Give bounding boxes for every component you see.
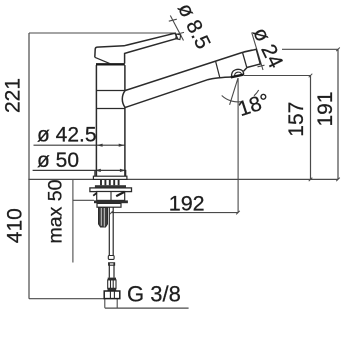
wire: left vertical dimension line (221/410): [28, 33, 30, 299]
spout tip end piece: [243, 49, 261, 67]
supply tube upper end cap: [108, 256, 114, 260]
node: dimension end ticks: [110, 48, 340, 215]
wire: vertical reference from aerator to 192 line: [237, 78, 239, 213]
svg-text:192: 192: [169, 191, 205, 215]
wire: dia 50 leader/collar top line: [33, 169, 127, 171]
handle lever tip stub: [176, 34, 181, 40]
aerator dome outer: [232, 69, 244, 77]
washer dark band: [94, 200, 128, 203]
node: arrowheads dia 50: [95, 169, 126, 172]
wire: dia 8.5 dimension line at lever tip: [170, 16, 183, 41]
svg-text:ø 50: ø 50: [37, 149, 79, 172]
svg-text:ø 42.5: ø 42.5: [37, 123, 97, 146]
mounting block lug diagonal: [116, 192, 124, 196]
ferrule body: [108, 280, 116, 288]
base ring: [93, 176, 127, 179]
thread section below deck: [101, 180, 119, 185]
faucet body: left edge: [95, 65, 97, 176]
wire: 192 dimension bottom line: [111, 212, 238, 214]
thread section dark band: [95, 185, 126, 188]
mounting block lug diagonal: [110, 192, 112, 201]
G3/8 nut: [104, 291, 120, 299]
wire: dia 42.5 leader/joint line: [34, 144, 125, 146]
collar sides: [95, 170, 126, 176]
handle cap outline: [95, 33, 178, 63]
wire: dia 8.5 ticks: [169, 19, 184, 34]
wire: 18 degree arc: [222, 90, 259, 102]
spout joint ring 1: [216, 61, 220, 78]
mounting block left tab: [93, 193, 97, 196]
handle notch diagonal: [95, 57, 111, 64]
supply tube lower cap: [109, 263, 115, 265]
node: arrowheads dia 42.5: [97, 144, 125, 147]
svg-text:221: 221: [2, 78, 25, 113]
svg-text:410: 410: [3, 208, 26, 243]
ferrule bottom dark band: [108, 288, 117, 291]
wire: 157 dimension vertical: [310, 76, 312, 180]
threaded stud: [99, 208, 108, 228]
aerator base line: [231, 75, 244, 78]
wire: 410 bottom line: [29, 298, 105, 300]
ferrule top dark band: [108, 278, 116, 280]
wire: max50 dimension vertical: [72, 179, 74, 262]
spout tip joint face: [243, 52, 247, 67]
ferrule inner lines: [111, 280, 114, 288]
threaded stud highlights: [101, 208, 104, 227]
wire: dia 24 ticks: [244, 50, 265, 67]
wire: 18 degree slant line: [230, 78, 238, 105]
wire: dia 24 dimension line at spout tip: [252, 33, 263, 71]
svg-text:max 50: max 50: [45, 179, 67, 243]
wire: 191 top extension: [282, 48, 338, 50]
wire: G3/8 extension lines: [105, 299, 117, 308]
supply tube upper: [109, 208, 113, 256]
horseshoe washer plate: [97, 203, 121, 207]
wire: 157 top extension: [244, 75, 311, 77]
faucet body: right edge with spout fillet arc: [122, 65, 125, 176]
supply tube lower: [109, 263, 114, 278]
wire: 191 dimension vertical: [337, 49, 339, 179]
G3/8 nut face lines: [110, 291, 114, 298]
wire: G3/8 underline: [105, 307, 189, 309]
mounting block: [97, 192, 125, 201]
faucet body: joint lines: [96, 91, 125, 109]
wire: deck level line: [28, 178, 338, 180]
wire: max50 lower reference tick: [73, 199, 94, 201]
svg-text:157: 157: [285, 102, 308, 137]
svg-text:191: 191: [314, 91, 337, 126]
spout bottom edge: [125, 68, 247, 108]
svg-text:G 3/8: G 3/8: [127, 282, 181, 307]
flange plate: [90, 188, 132, 192]
faucet body: thick cap bottom line: [96, 63, 125, 65]
aerator dome inner: [235, 72, 242, 76]
spout top edge: [125, 52, 243, 90]
wire: top extension line to lever tip: [29, 32, 176, 34]
